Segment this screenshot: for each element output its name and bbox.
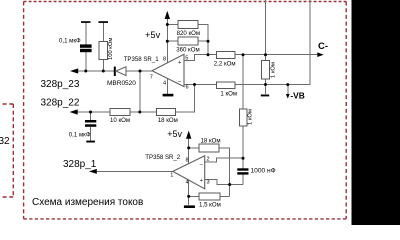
svg-text:1 кОм: 1 кОм [220,90,237,97]
svg-text:0,1 мкФ: 0,1 мкФ [69,132,91,139]
svg-text:328p_23: 328p_23 [41,79,80,90]
svg-text:10 кОм: 10 кОм [110,117,130,124]
svg-text:1 кОм: 1 кОм [248,109,254,125]
svg-text:18 кОм: 18 кОм [158,117,178,124]
svg-text:1,5 кОм: 1,5 кОм [199,201,221,208]
svg-text:+5v: +5v [167,129,182,139]
svg-text:1 кОм: 1 кОм [271,62,277,78]
svg-text:360 кОм: 360 кОм [176,47,199,54]
svg-text:8: 8 [163,57,166,63]
svg-text:+: + [178,60,181,66]
svg-text:2: 2 [207,157,210,163]
svg-text:7: 7 [150,75,153,81]
svg-text:MBR0520: MBR0520 [107,80,136,87]
svg-text:6: 6 [186,84,189,90]
svg-text:4: 4 [186,179,189,185]
svg-text:4: 4 [163,80,166,86]
svg-text:3: 3 [207,179,210,185]
svg-text:TP358 SR_2: TP358 SR_2 [145,154,181,161]
svg-text:+: + [200,178,203,184]
svg-text:8: 8 [186,158,189,164]
svg-text:18 кОм: 18 кОм [201,137,221,144]
svg-text:+5v: +5v [145,30,161,40]
svg-text:32: 32 [0,136,10,147]
svg-text:328p_22: 328p_22 [41,98,80,109]
svg-text:Схема измерения токов: Схема измерения токов [32,197,143,208]
svg-text:0,1 мкФ: 0,1 мкФ [59,38,81,45]
svg-text:1: 1 [170,172,173,178]
svg-text:2,2 кОм: 2,2 кОм [214,60,236,67]
svg-text:TP358 SR_1: TP358 SR_1 [124,56,160,63]
svg-text:820 кОм: 820 кОм [177,30,200,37]
svg-text:100 кОм: 100 кОм [108,38,114,60]
svg-text:5: 5 [185,55,188,61]
svg-text:C-: C- [318,41,328,52]
svg-text:-VB: -VB [290,91,304,101]
svg-text:1000 нФ: 1000 нФ [251,168,276,175]
svg-text:328p_1: 328p_1 [63,159,97,170]
